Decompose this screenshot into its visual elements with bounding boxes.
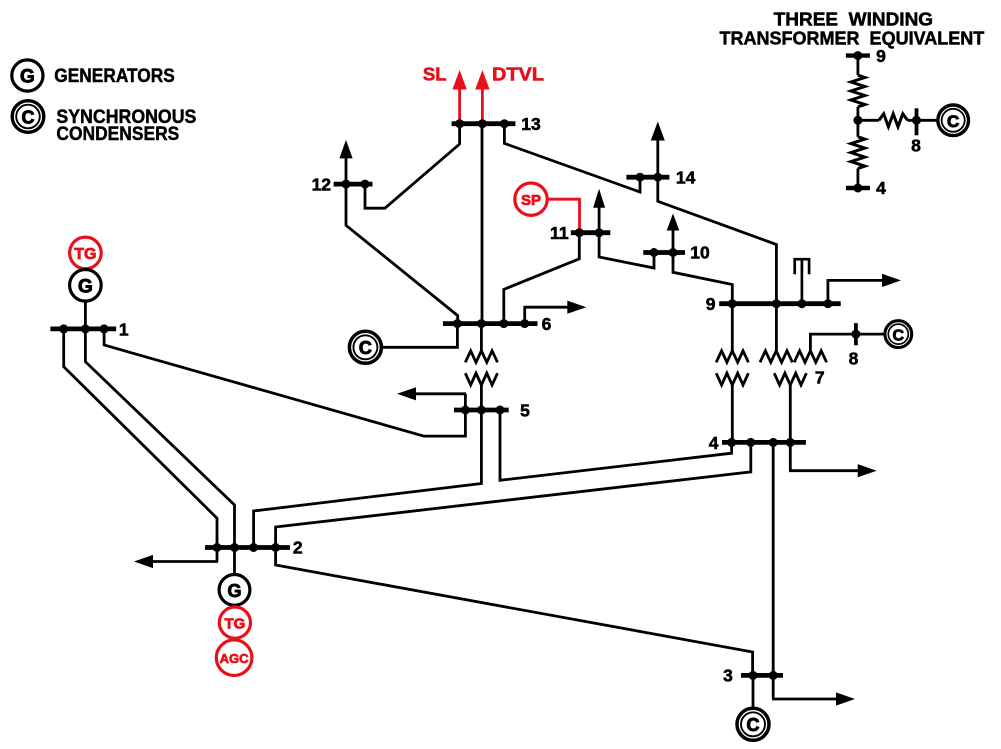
bus 3: [741, 673, 783, 678]
bus 2 junction dots: [213, 543, 281, 552]
svg-text:C: C: [22, 107, 35, 127]
synchronous condenser C at bus 3: [737, 708, 769, 740]
generator G2: [219, 575, 250, 606]
inset wire winding to bus 4: [857, 168, 860, 190]
svg-text:12: 12: [312, 174, 332, 194]
svg-text:8: 8: [911, 136, 921, 156]
wire line 1-5: [104, 329, 465, 436]
label bus 12: [312, 174, 332, 194]
svg-text:G: G: [20, 66, 35, 87]
wire bus 6 to transformer 5-6: [480, 324, 483, 352]
bus 12 junction dots: [342, 180, 370, 189]
svg-text:10: 10: [690, 243, 710, 263]
inset winding 4 (resistor zigzag): [851, 137, 865, 169]
wire line 12-13: [365, 124, 460, 209]
wire transformer 5-6 to bus 5: [480, 385, 483, 410]
load arrow at bus 5: [397, 387, 466, 410]
bus 9 junction dots: [728, 299, 833, 308]
generator G1: [70, 270, 102, 302]
slack arrow SL at bus 13: [452, 70, 466, 124]
bus 1 junction dots: [59, 324, 108, 333]
load arrow at bus 6: [524, 301, 587, 324]
synchronous condenser C at bus 8: [885, 321, 912, 348]
wire SP to bus 11: [547, 199, 579, 233]
bus 3 junction dots: [749, 671, 778, 680]
transformer 7-9 winding: [760, 351, 792, 363]
svg-text:11: 11: [550, 223, 569, 243]
svg-text:G: G: [78, 277, 93, 298]
transformer 7-8 winding: [794, 351, 826, 363]
inset label 9: [876, 46, 886, 66]
inset wire winding to star node: [857, 107, 860, 122]
setpoint control SP: [515, 183, 547, 215]
wire line 2-5: [254, 410, 482, 548]
svg-text:DTVL: DTVL: [492, 64, 544, 85]
wire bus 6 to condenser: [381, 324, 458, 348]
legend generator symbol G: [12, 60, 43, 91]
legend label CONDENSERS: [56, 124, 179, 145]
svg-text:9: 9: [706, 294, 716, 314]
bus 5 junction dots: [461, 406, 505, 415]
svg-text:C: C: [747, 715, 760, 735]
svg-text:TRANSFORMER EQUIVALENT: TRANSFORMER EQUIVALENT: [720, 28, 985, 48]
svg-text:C: C: [359, 338, 372, 358]
load arrow at bus 9: [827, 274, 902, 304]
bus 11 junction dots: [575, 228, 604, 237]
load arrow at bus 3: [772, 675, 855, 705]
bus 14 junction dots: [636, 173, 663, 182]
inset winding 9 (resistor zigzag): [851, 75, 865, 107]
wire line 2-4: [276, 442, 751, 547]
inset bus 9 junction dot: [853, 51, 862, 60]
label bus 5: [520, 401, 530, 421]
label bus 14: [676, 167, 696, 187]
inset bus 8 junction dot: [912, 116, 921, 125]
inset star node dot: [853, 116, 862, 125]
wire line 6-13: [481, 124, 484, 324]
svg-text:GENERATORS: GENERATORS: [54, 66, 175, 87]
transformer TG at generator 2: [219, 607, 250, 638]
load arrow at bus 2: [134, 548, 218, 569]
bus 8 junction dot: [851, 330, 860, 339]
bus 14: [626, 175, 669, 180]
bus 5: [454, 408, 509, 413]
svg-text:9: 9: [876, 46, 886, 66]
bus 1: [50, 326, 116, 331]
bus 11: [571, 230, 611, 235]
label bus 6: [542, 314, 552, 334]
svg-text:2: 2: [293, 538, 303, 558]
wire bus 2 to G2: [233, 548, 236, 576]
svg-text:4: 4: [709, 433, 719, 453]
label bus 10: [690, 243, 710, 263]
bus 6: [443, 321, 538, 326]
inset title line 2: [720, 28, 985, 48]
transformer 4-7 winding: [774, 373, 806, 385]
bus 4 junction dots: [727, 438, 795, 447]
label bus 2: [293, 538, 303, 558]
wire line 4-5: [500, 410, 732, 480]
shunt capacitor at bus 9: [795, 259, 809, 304]
inset bus 4: [846, 186, 870, 190]
arrow DTVL at bus 13: [475, 70, 489, 124]
label bus 11: [550, 223, 569, 243]
bus 6 junction dots: [453, 319, 529, 328]
svg-text:6: 6: [542, 314, 552, 334]
wire transformer 7-8 to bus 8: [810, 334, 885, 351]
wire line 6-11: [504, 233, 580, 324]
wire line 9-10: [673, 253, 732, 304]
inset wire bus9 to winding: [857, 53, 860, 75]
transformer 4-9 winding 1: [716, 351, 748, 363]
legend label GENERATORS: [54, 66, 175, 87]
label DTVL: [492, 64, 544, 85]
inset title line 1: [774, 10, 933, 30]
label bus 4: [709, 433, 719, 453]
transformer 4-9 winding 2: [716, 373, 748, 385]
legend synchronous condenser symbol C: [12, 101, 44, 133]
transformer TG at generator 1: [70, 237, 102, 269]
svg-text:3: 3: [723, 666, 733, 686]
wire bus 9 to transformer 4-9: [731, 304, 734, 352]
svg-text:SL: SL: [423, 64, 447, 85]
label bus 3: [723, 666, 733, 686]
svg-text:AGC: AGC: [220, 651, 250, 666]
load arrow at bus 14: [651, 122, 665, 178]
svg-text:13: 13: [521, 114, 541, 134]
wire transformer 4-7 to bus 4: [789, 385, 792, 442]
svg-text:4: 4: [876, 178, 886, 198]
wire line 10-11: [599, 233, 654, 268]
bus 13: [452, 121, 516, 126]
wire line 2-3: [276, 548, 753, 676]
inset synchronous condenser C at bus 8: [938, 105, 969, 136]
inset bus 8 tick: [915, 108, 919, 135]
bus 13 junction dots: [455, 119, 509, 128]
bus 10 junction dots: [650, 248, 678, 257]
wire line 1-2 circuit 1: [64, 329, 217, 548]
wire line 13-14: [504, 124, 640, 192]
bus 10: [643, 250, 685, 255]
AGC control at generator 2: [216, 640, 252, 676]
load arrow at bus 10: [667, 214, 680, 253]
svg-text:SP: SP: [521, 192, 541, 209]
wire G1 to bus 1: [84, 301, 87, 329]
wire line 9-14: [658, 177, 777, 304]
wire transformer 4-9 to bus 4: [731, 385, 734, 442]
inset wire star node to winding 8: [858, 119, 879, 122]
wire bus 3 to condenser: [752, 675, 755, 709]
label SL: [423, 64, 447, 85]
load arrow at bus 4: [789, 442, 877, 477]
svg-text:TG: TG: [74, 246, 96, 263]
inset winding 8 (resistor zigzag): [879, 114, 908, 127]
inset bus 9: [846, 53, 870, 57]
transformer 5-6 winding 1: [465, 351, 497, 363]
label bus 13: [521, 114, 541, 134]
svg-text:C: C: [947, 112, 959, 131]
svg-text:8: 8: [849, 349, 859, 369]
legend label SYNCHRONOUS: [56, 107, 196, 128]
svg-text:THREE WINDING: THREE WINDING: [774, 10, 933, 30]
inset label 8: [911, 136, 921, 156]
bus 2: [205, 545, 290, 550]
wire line 1-2 circuit 2: [85, 329, 234, 548]
bus 4: [722, 440, 806, 445]
label bus 1: [119, 320, 129, 340]
load arrow at bus 11: [593, 189, 605, 233]
svg-text:7: 7: [815, 368, 825, 388]
svg-text:1: 1: [119, 320, 129, 340]
label node 7: [815, 368, 825, 388]
svg-text:CONDENSERS: CONDENSERS: [56, 124, 179, 145]
inset label 4: [876, 178, 886, 198]
wire line 6-12: [346, 184, 458, 324]
svg-text:14: 14: [676, 167, 696, 187]
load arrow at bus 12: [339, 140, 352, 184]
label bus 8: [849, 349, 859, 369]
svg-text:5: 5: [520, 401, 530, 421]
synchronous condenser C at bus 6: [349, 331, 381, 363]
inset wire star node to winding 4: [857, 120, 860, 137]
wire bus 9 to transformer 7-9: [775, 304, 778, 352]
svg-text:G: G: [227, 581, 241, 601]
inset wire winding to bus 8: [908, 119, 939, 122]
transformer 5-6 winding 2: [465, 373, 497, 385]
label bus 9: [706, 294, 716, 314]
bus 12: [334, 182, 373, 187]
svg-text:C: C: [893, 327, 905, 344]
wire line 3-4: [772, 442, 775, 675]
inset bus 4 junction dot: [853, 184, 862, 193]
svg-text:TG: TG: [224, 616, 245, 633]
bus 8 tick: [854, 323, 858, 345]
bus 9: [719, 301, 841, 306]
